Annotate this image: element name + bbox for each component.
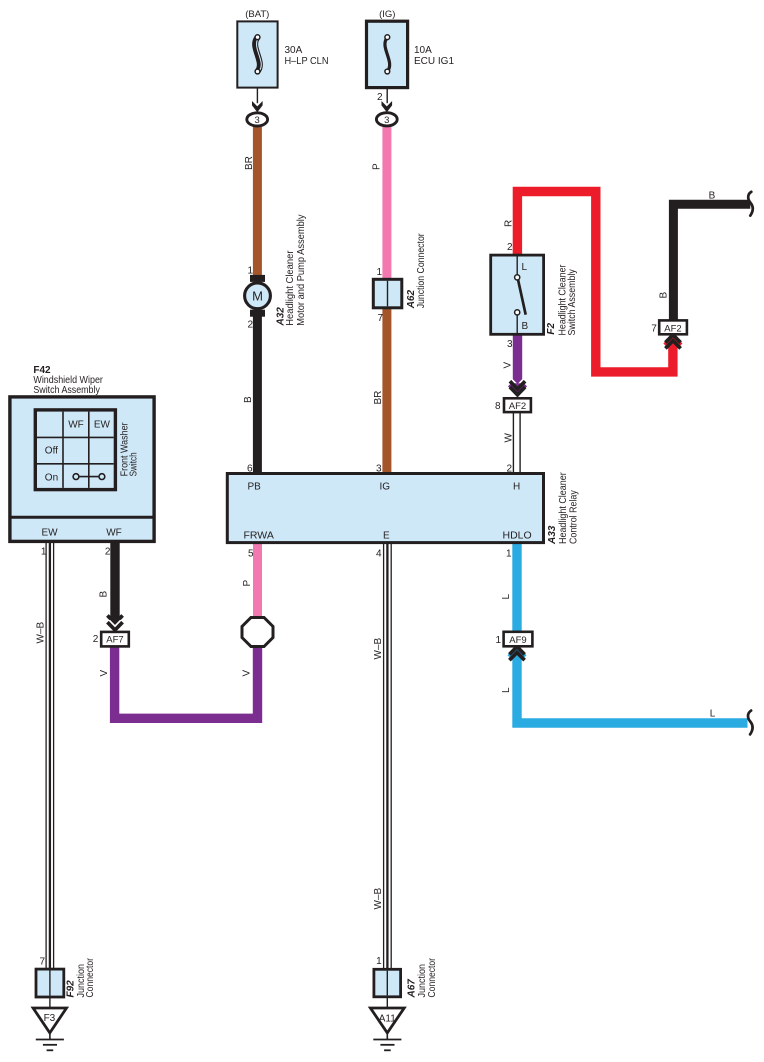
svg-text:Switch Assembly: Switch Assembly xyxy=(33,385,100,396)
svg-text:Control Relay: Control Relay xyxy=(568,490,579,544)
svg-text:1: 1 xyxy=(495,635,501,646)
svg-text:A11: A11 xyxy=(379,1014,396,1025)
svg-text:P: P xyxy=(242,580,253,587)
svg-text:B: B xyxy=(709,191,716,202)
svg-text:7: 7 xyxy=(39,957,45,968)
svg-text:F92: F92 xyxy=(65,980,76,998)
svg-text:5: 5 xyxy=(248,549,254,560)
svg-text:ECU IG1: ECU IG1 xyxy=(414,56,454,67)
svg-text:AF7: AF7 xyxy=(106,634,123,645)
svg-text:1: 1 xyxy=(376,956,382,967)
svg-text:7: 7 xyxy=(651,324,657,335)
svg-text:AF9: AF9 xyxy=(509,635,526,646)
svg-text:FRWA: FRWA xyxy=(244,530,274,542)
svg-text:2: 2 xyxy=(93,634,99,645)
svg-text:W–B: W–B xyxy=(36,622,47,644)
svg-text:Headlight Cleaner: Headlight Cleaner xyxy=(558,472,569,544)
svg-text:Junction Connector: Junction Connector xyxy=(416,233,427,309)
svg-text:H: H xyxy=(513,482,520,493)
svg-text:F3: F3 xyxy=(44,1013,56,1024)
svg-text:1: 1 xyxy=(41,547,47,558)
svg-text:IG: IG xyxy=(380,482,391,493)
svg-text:1: 1 xyxy=(376,267,382,278)
svg-text:WF: WF xyxy=(68,420,84,431)
svg-text:M: M xyxy=(252,288,263,303)
svg-text:R: R xyxy=(504,220,515,227)
svg-text:HDLO: HDLO xyxy=(503,530,532,542)
svg-text:PB: PB xyxy=(248,482,262,493)
svg-text:Headlight Cleaner: Headlight Cleaner xyxy=(285,250,296,326)
svg-text:2: 2 xyxy=(506,464,512,475)
svg-text:Motor and Pump Assembly: Motor and Pump Assembly xyxy=(296,214,307,325)
svg-text:3: 3 xyxy=(255,115,260,126)
svg-text:E: E xyxy=(383,531,390,542)
svg-text:BR: BR xyxy=(244,156,255,170)
svg-text:V: V xyxy=(99,670,110,677)
svg-text:1: 1 xyxy=(247,266,253,277)
svg-text:L: L xyxy=(522,262,528,273)
svg-text:Switch: Switch xyxy=(129,452,140,476)
svg-text:10A: 10A xyxy=(414,45,432,56)
svg-text:B: B xyxy=(99,591,110,598)
svg-text:AF2: AF2 xyxy=(664,323,681,334)
svg-text:P: P xyxy=(372,163,383,170)
svg-text:A67: A67 xyxy=(406,979,417,999)
svg-text:A33: A33 xyxy=(547,525,558,545)
svg-text:L: L xyxy=(501,687,512,693)
svg-text:Off: Off xyxy=(45,446,58,457)
svg-text:F2: F2 xyxy=(546,322,557,334)
svg-text:(BAT): (BAT) xyxy=(245,9,269,20)
svg-text:3: 3 xyxy=(507,339,513,350)
svg-text:BR: BR xyxy=(373,391,384,405)
svg-text:Connector: Connector xyxy=(85,957,96,997)
svg-text:2: 2 xyxy=(377,92,383,103)
svg-text:EW: EW xyxy=(94,420,111,431)
svg-text:Switch Assembly: Switch Assembly xyxy=(567,269,578,335)
svg-text:B: B xyxy=(243,396,254,403)
svg-text:H–LP CLN: H–LP CLN xyxy=(285,56,329,67)
svg-text:8: 8 xyxy=(495,401,501,412)
svg-text:L: L xyxy=(710,709,716,720)
svg-text:AF2: AF2 xyxy=(509,401,526,412)
svg-text:W–B: W–B xyxy=(373,638,384,660)
svg-text:On: On xyxy=(45,472,58,483)
svg-text:30A: 30A xyxy=(285,45,303,56)
svg-text:2: 2 xyxy=(507,242,513,253)
svg-text:4: 4 xyxy=(376,549,382,560)
svg-text:(IG): (IG) xyxy=(379,9,395,20)
svg-text:2: 2 xyxy=(105,547,111,558)
svg-text:3: 3 xyxy=(376,464,382,475)
svg-text:2: 2 xyxy=(247,320,253,331)
svg-text:W: W xyxy=(504,433,515,443)
svg-text:6: 6 xyxy=(247,464,253,475)
svg-text:7: 7 xyxy=(377,313,383,324)
svg-text:WF: WF xyxy=(106,527,122,538)
svg-text:V: V xyxy=(503,362,514,369)
svg-text:3: 3 xyxy=(384,115,389,126)
svg-text:L: L xyxy=(501,594,512,600)
svg-text:B: B xyxy=(522,321,529,332)
svg-text:Connector: Connector xyxy=(427,957,438,997)
svg-text:W–B: W–B xyxy=(373,888,384,910)
svg-text:V: V xyxy=(242,670,253,677)
svg-text:B: B xyxy=(659,292,670,299)
svg-text:1: 1 xyxy=(506,549,512,560)
svg-text:EW: EW xyxy=(41,527,58,538)
